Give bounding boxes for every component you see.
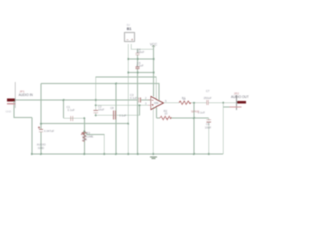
node rail wiper [103,153,105,155]
node input branch [63,99,65,101]
connector JP1 body bar [14,82,16,108]
svg-text:AUDIO IN: AUDIO IN [19,93,34,97]
capacitor C8 plates (series on feedback line) [114,111,116,120]
node rail gnd [152,153,154,155]
wire mid vertical [115,84,117,155]
wire op-amp pin4 to ground [152,107,154,154]
connector JP1 pad 1 [7,99,15,102]
wire feedback riser [139,105,141,115]
node feedback riser top [139,104,141,106]
wire rail B [128,72,153,74]
wire long lower horizontal [41,123,128,125]
wire bottom ground rail [32,153,223,155]
svg-text:386: 386 [154,101,159,105]
wire pin2 horizontal [96,104,151,106]
op-amp input pin stubs [148,100,151,105]
node zobel junction [193,117,195,119]
op-amp +/- marks [152,100,154,106]
svg-text:100uF: 100uF [136,50,144,54]
capacitor C7 plates (series output) [207,100,209,105]
node jp2 top [222,102,224,104]
node cap/railA [137,58,139,60]
node battery/railA [127,58,129,60]
op-amp U1 LM386 triangle [151,96,164,109]
wire output junction down [193,103,195,154]
wire after C3 to op-amp pin 3 [141,99,151,101]
node pin2 c2 [95,104,97,106]
svg-text:10uF: 10uF [98,108,105,112]
wire JP1 gnd down [31,118,33,155]
capacitor C2b plates (bottom-left, polarized) [38,127,43,132]
wire net B to op-amp top pin [41,84,159,101]
wire bypass cap column [137,49,139,154]
wire VCC column to op-amp [153,46,155,97]
connector JP1 pad 2 [7,103,15,104]
node cap/railB [137,72,139,74]
capacitor C1 plates (series) [71,116,73,121]
svg-text:SPKR: SPKR [191,109,200,113]
wire C1 line [64,117,85,119]
wire output after C7 to JP2 [209,102,237,104]
capacitor C2 plates (on vertical) [94,111,98,113]
wire VCC top rail [131,44,153,49]
node rail c6 [208,153,210,155]
wire input branch down [63,100,65,118]
wire JP1 signal long horizontal [15,99,138,101]
wire C2b column [40,84,42,155]
wire JP1 gnd path [14,101,32,118]
node rail v7 [115,153,117,155]
node rail caps [137,153,139,155]
wire JP2 gnd column [222,103,224,154]
resistor R1 (series output) [179,101,191,104]
wire op-amp output [163,102,179,104]
battery B1 terminal marks [127,39,134,41]
VCC symbol tick [152,45,155,48]
capacitor C6 plates [207,120,211,122]
svg-text:250uF: 250uF [204,96,212,100]
svg-text:0.1uF: 0.1uF [119,113,126,117]
node lower wire c2b [40,123,42,125]
wire output after R1 [189,102,207,104]
node rail pot [83,153,85,155]
node pot c1 [83,117,85,119]
svg-text:C7: C7 [206,89,210,93]
node rail c2b [40,153,42,155]
node battery/railB [127,72,129,74]
svg-text:10uF: 10uF [205,125,212,129]
node output junction [193,102,195,104]
node netB tap [115,83,117,85]
connector JP2 pad 1 [237,101,246,104]
wire pot wiper to rail [85,132,105,154]
node vcc/railA [153,58,155,60]
svg-text:AUDIO OUT: AUDIO OUT [231,95,249,99]
wire pot column [83,118,85,154]
node rail jp1gnd [31,153,33,155]
node rail output [193,153,195,155]
svg-text:10: 10 [164,111,167,115]
svg-text:0.1uF: 0.1uF [68,108,75,112]
wire C2 column [95,77,97,115]
resistor R2 (zobel) [160,116,171,119]
wire feedback line [96,114,140,116]
svg-text:GND: GND [38,146,44,150]
node rail battery [127,153,129,155]
wire net A to op-amp top pin [96,77,157,99]
wire battery minus vertical [127,44,129,154]
svg-text:0.047uF: 0.047uF [44,129,55,133]
node c2 tap [95,99,97,101]
wire zobel line [156,117,160,119]
svg-text:C8: C8 [110,106,114,110]
svg-text:10K: 10K [82,138,87,142]
potentiometer R3 [81,132,86,142]
capacitor C5 plates [136,67,140,68]
ground symbol [150,157,157,159]
node vcc/railB [153,72,155,74]
svg-text:B1: B1 [127,27,132,31]
connector JP2 body bar [236,95,238,110]
wire rail A [128,58,153,60]
wire op-amp gnd pin [155,108,157,119]
svg-text:VCC: VCC [150,43,158,47]
wire C6 column [208,118,210,154]
node feedback c2 [95,114,97,116]
connector JP2 pad 2 [230,106,242,107]
node lower wire battery [127,123,129,125]
svg-text:GND: GND [6,110,12,114]
wire JP2 pin2 [223,106,233,108]
wire zobel line after R2 [171,117,209,119]
svg-text:0.1uF: 0.1uF [130,96,137,100]
capacitor C3 plates (series on input line) [139,98,141,103]
node pot wiper [83,130,85,132]
capacitor C4 plates [136,53,140,54]
svg-text:0.1uF: 0.1uF [136,63,143,67]
battery B1 box [125,33,135,42]
svg-text:10: 10 [183,97,186,101]
